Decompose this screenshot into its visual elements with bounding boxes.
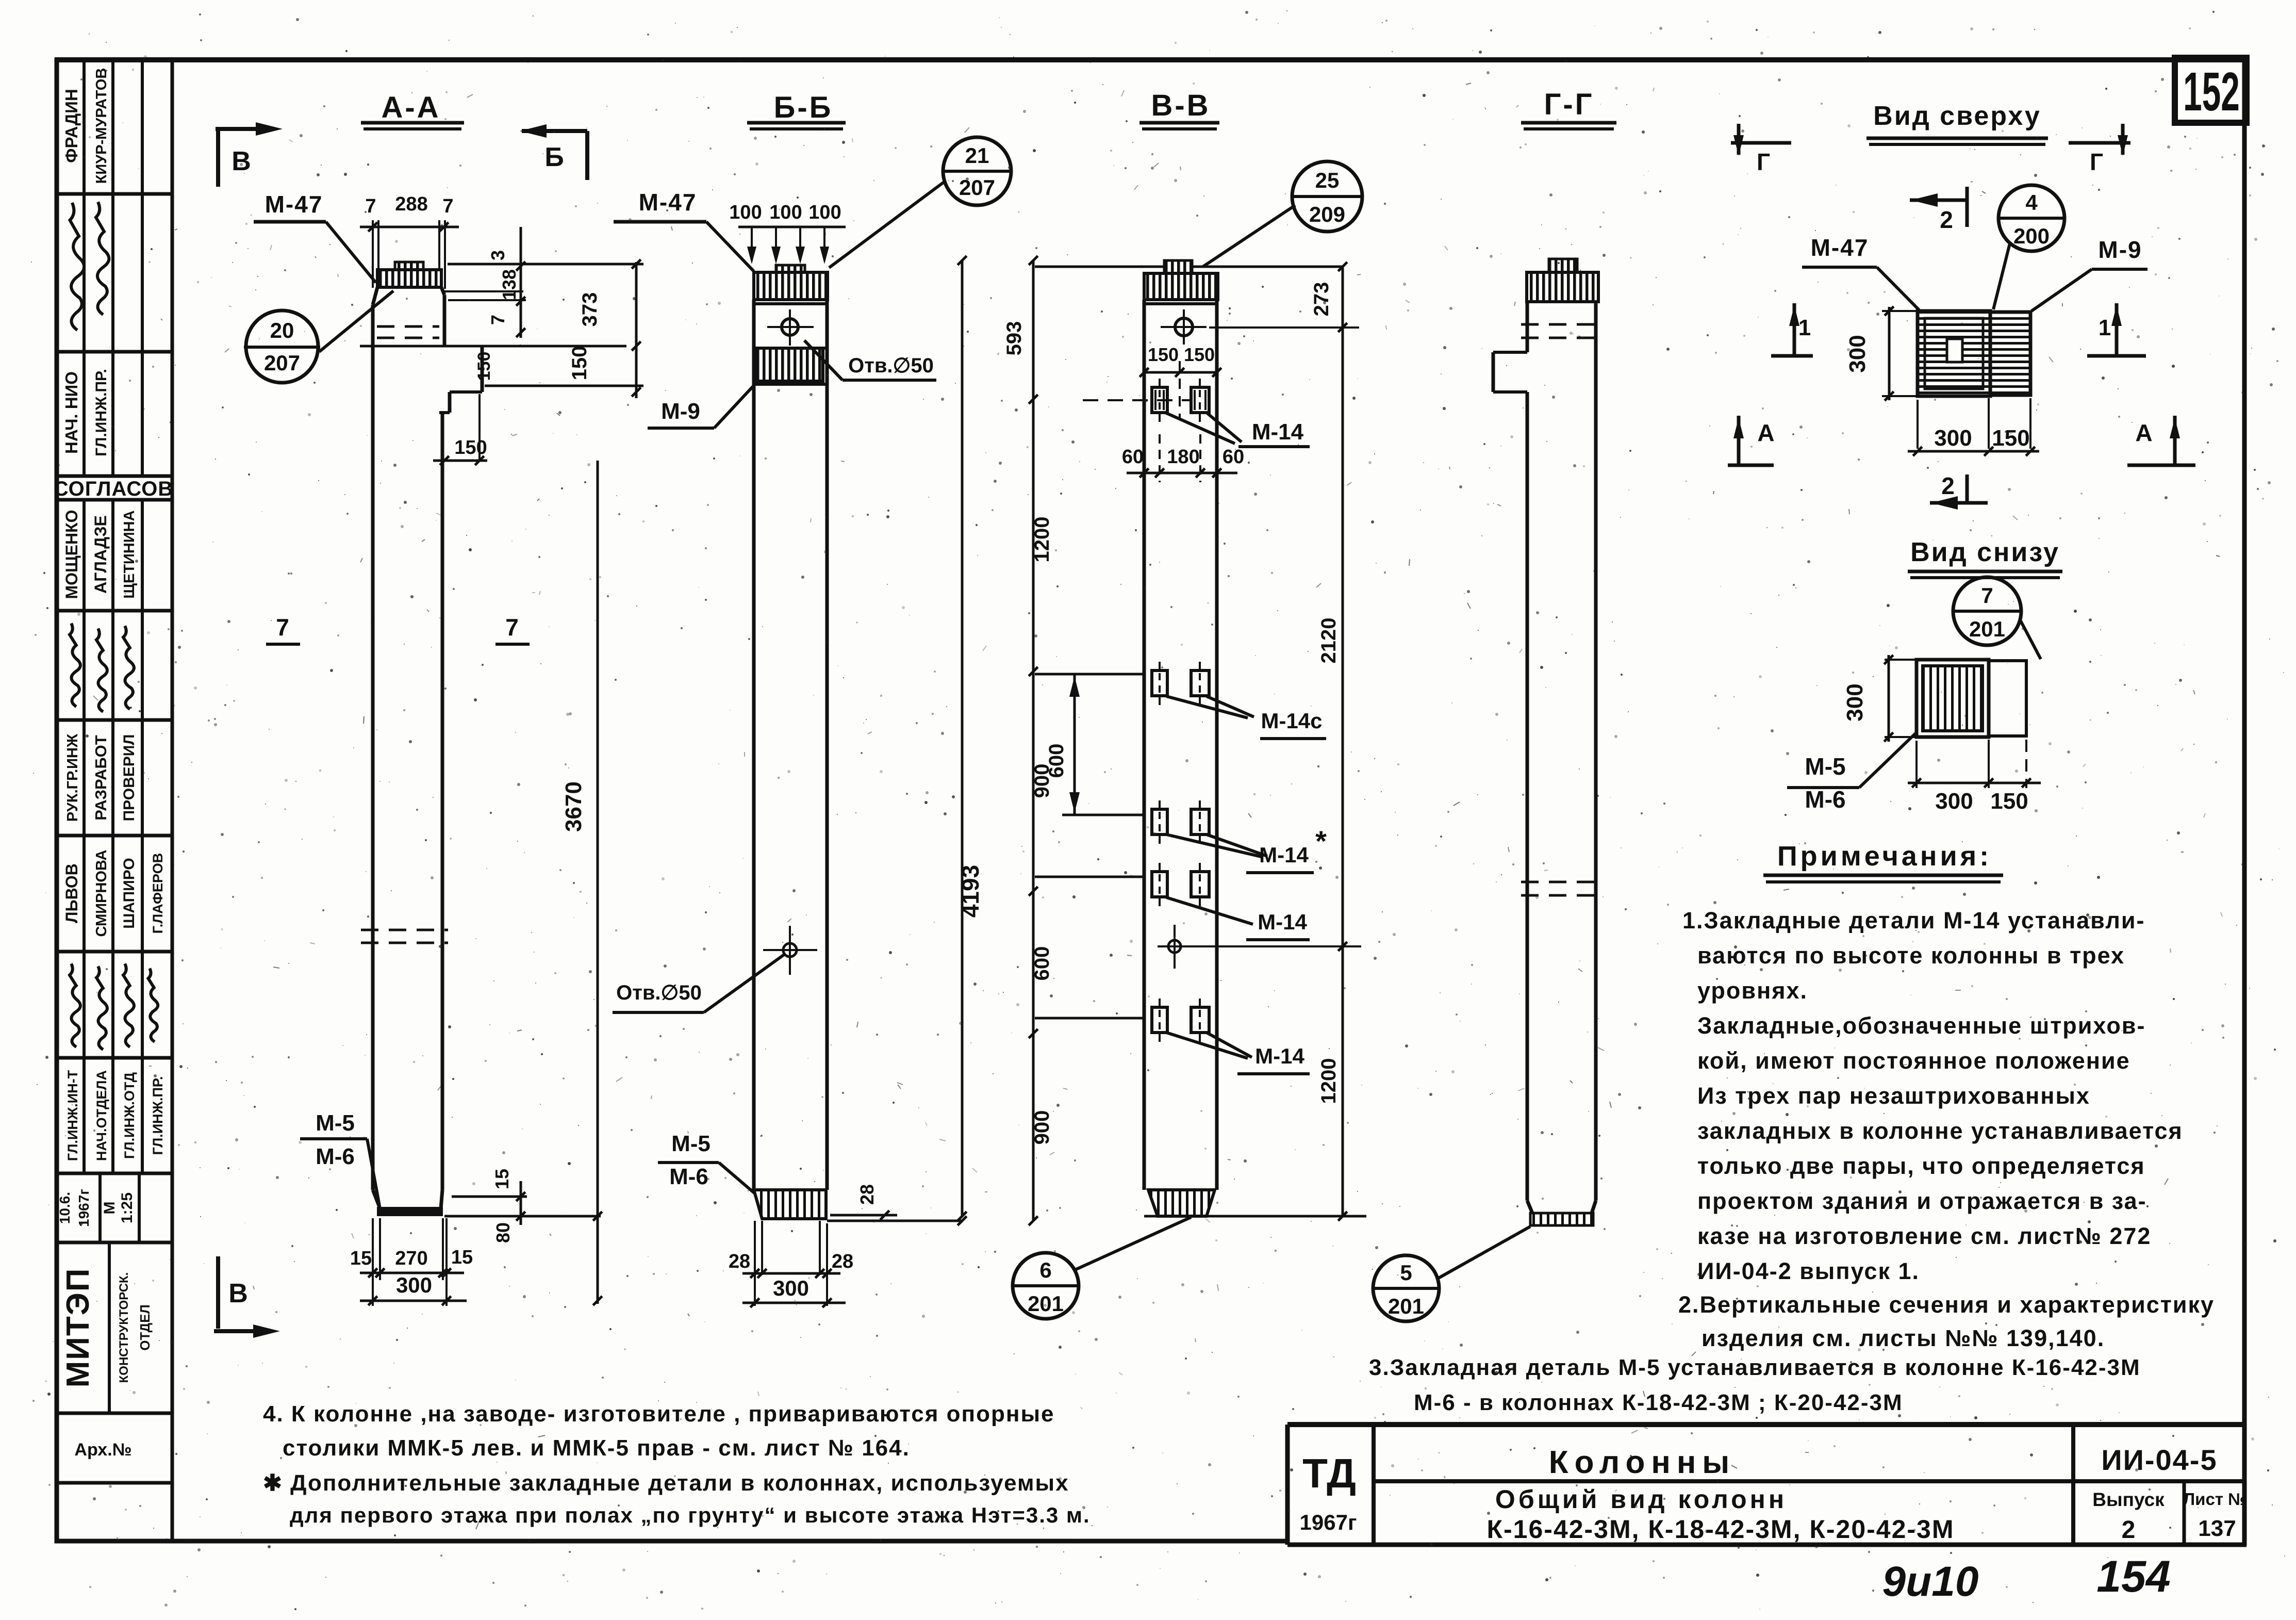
svg-text:М-14: М-14 [1258, 910, 1307, 934]
svg-text:180: 180 [1167, 446, 1199, 468]
svg-text:М-5: М-5 [1805, 753, 1845, 780]
svg-text:✱ Дополнительные закладные д: ✱ Дополнительные закладные детали в коло… [263, 1470, 1069, 1496]
svg-text:80: 80 [492, 1222, 514, 1243]
svg-text:ТД: ТД [1302, 1450, 1356, 1496]
svg-text:300: 300 [1934, 426, 1972, 451]
svg-text:уровнях.: уровнях. [1697, 977, 1808, 1004]
svg-text:только две пары, что определяе: только две пары, что определяется [1697, 1153, 2145, 1179]
svg-text:201: 201 [1388, 1294, 1424, 1318]
svg-text:ГЛ.ИНЖ.ПР.: ГЛ.ИНЖ.ПР. [93, 369, 110, 456]
svg-text:7: 7 [365, 195, 376, 217]
svg-text:5: 5 [1400, 1261, 1412, 1285]
svg-text:100: 100 [808, 202, 841, 223]
svg-text:1200: 1200 [1317, 1058, 1340, 1104]
svg-text:15: 15 [491, 1169, 513, 1189]
svg-text:Вид сверху: Вид сверху [1873, 101, 2041, 131]
svg-text:3: 3 [487, 250, 508, 260]
svg-text:300: 300 [1935, 789, 1973, 814]
svg-text:М-6: М-6 [1805, 786, 1845, 813]
svg-text:150: 150 [1184, 344, 1215, 365]
svg-text:7: 7 [442, 195, 453, 217]
svg-text:МИТЭП: МИТЭП [60, 1268, 96, 1388]
svg-text:Г: Г [2090, 149, 2103, 175]
svg-text:7: 7 [487, 315, 508, 325]
svg-text:150: 150 [474, 352, 494, 381]
svg-text:М-9: М-9 [661, 399, 700, 424]
svg-text:4193: 4193 [957, 865, 984, 918]
svg-text:М-47: М-47 [265, 191, 323, 218]
svg-text:4: 4 [2025, 190, 2038, 215]
svg-text:300: 300 [1845, 335, 1870, 372]
svg-text:КОНСТРУКТОРСК.: КОНСТРУКТОРСК. [117, 1272, 131, 1383]
svg-text:ФРАДИН: ФРАДИН [62, 89, 81, 162]
svg-text:ИИ-04-2 выпуск 1.: ИИ-04-2 выпуск 1. [1697, 1258, 1920, 1284]
svg-text:273: 273 [1310, 282, 1333, 317]
svg-text:М-14с: М-14с [1261, 709, 1322, 733]
svg-text:Вид снизу: Вид снизу [1910, 537, 2060, 567]
svg-text:300: 300 [396, 1273, 432, 1297]
svg-text:М-14: М-14 [1252, 419, 1304, 445]
svg-text:150: 150 [454, 437, 487, 459]
svg-text:казе на изготовление см. лис: казе на изготовление см. лист№ 272 [1697, 1223, 2151, 1249]
svg-text:2: 2 [1940, 206, 1953, 233]
svg-text:М: М [101, 1202, 118, 1215]
svg-text:РАЗРАБОТ: РАЗРАБОТ [92, 735, 110, 820]
svg-text:ПРОВЕРИЛ: ПРОВЕРИЛ [121, 734, 138, 822]
svg-text:3670: 3670 [561, 781, 586, 832]
svg-text:1:25: 1:25 [119, 1192, 136, 1223]
svg-text:7: 7 [276, 614, 289, 641]
svg-text:ваются по высоте колонны в тре: ваются по высоте колонны в трех [1697, 942, 2125, 969]
svg-text:М-47: М-47 [639, 189, 697, 216]
svg-text:ЛЬВОВ: ЛЬВОВ [62, 863, 81, 923]
svg-text:В: В [228, 1279, 248, 1308]
svg-text:15: 15 [451, 1247, 473, 1268]
svg-text:100: 100 [769, 202, 802, 223]
svg-text:28: 28 [832, 1251, 853, 1272]
svg-text:проектом здания и отражается: проектом здания и отражается в за- [1697, 1188, 2147, 1214]
svg-text:Г-Г: Г-Г [1544, 88, 1594, 121]
svg-text:изделия см. листы №№ 139,140: изделия см. листы №№ 139,140. [1702, 1325, 2105, 1351]
svg-text:209: 209 [1309, 202, 1345, 226]
svg-text:15: 15 [350, 1248, 372, 1269]
svg-text:ШАПИРО: ШАПИРО [121, 858, 138, 929]
svg-text:М-14: М-14 [1259, 843, 1309, 867]
svg-text:138: 138 [499, 269, 520, 300]
svg-text:207: 207 [959, 175, 995, 200]
svg-text:ИИ-04-5: ИИ-04-5 [2101, 1444, 2217, 1476]
svg-text:1967г: 1967г [1300, 1510, 1357, 1534]
svg-text:Отв.∅50: Отв.∅50 [616, 981, 702, 1004]
svg-text:25: 25 [1315, 168, 1340, 192]
svg-text:3.Закладная деталь М-5 уста: 3.Закладная деталь М-5 устанавливается в… [1369, 1355, 2141, 1380]
svg-text:9и10: 9и10 [1882, 1558, 1979, 1605]
svg-text:НАЧ. НИО: НАЧ. НИО [62, 371, 81, 454]
svg-text:В-В: В-В [1151, 89, 1210, 122]
svg-text:М-9: М-9 [2098, 236, 2142, 263]
svg-text:Б: Б [544, 142, 564, 172]
svg-text:28: 28 [729, 1251, 750, 1272]
svg-text:21: 21 [965, 143, 989, 168]
svg-text:900: 900 [1031, 1110, 1053, 1145]
svg-text:28: 28 [856, 1184, 878, 1205]
svg-text:Б-Б: Б-Б [774, 91, 833, 124]
svg-text:10.6.: 10.6. [57, 1192, 73, 1224]
svg-text:150: 150 [1992, 426, 2029, 451]
svg-text:1: 1 [2099, 315, 2111, 340]
svg-text:288: 288 [395, 193, 427, 215]
svg-text:7: 7 [505, 614, 519, 641]
svg-text:кой, имеют постоянное положе: кой, имеют постоянное положение [1697, 1048, 2130, 1074]
svg-text:Закладные,обозначенные штрихов: Закладные,обозначенные штрихов- [1697, 1012, 2145, 1039]
svg-text:593: 593 [1003, 321, 1026, 356]
svg-text:2: 2 [1941, 472, 1955, 499]
svg-text:150: 150 [568, 346, 591, 381]
svg-text:КИУР-МУРАТОВ: КИУР-МУРАТОВ [93, 68, 110, 184]
svg-text:ЩЕТИНИНА: ЩЕТИНИНА [121, 510, 138, 598]
svg-text:207: 207 [264, 351, 300, 375]
svg-text:150: 150 [1990, 789, 2028, 814]
svg-text:НАЧ.ОТДЕЛА: НАЧ.ОТДЕЛА [94, 1070, 109, 1161]
svg-text:СОГЛАСОВ: СОГЛАСОВ [54, 478, 174, 500]
svg-text:1.Закладные детали М-14 уст: 1.Закладные детали М-14 устанавли- [1682, 907, 2145, 934]
svg-text:ГЛ.ИНЖ.ОТД: ГЛ.ИНЖ.ОТД [122, 1072, 137, 1159]
svg-text:ГЛ.ИНЖ.ПР.: ГЛ.ИНЖ.ПР. [150, 1076, 166, 1155]
svg-text:Г.ЛАФЕРОВ: Г.ЛАФЕРОВ [150, 853, 166, 934]
svg-text:Из трех пар незаштрихованных: Из трех пар незаштрихованных [1697, 1083, 2090, 1109]
svg-text:7: 7 [1981, 583, 1993, 608]
svg-text:Общий вид колонн: Общий вид колонн [1495, 1485, 1787, 1514]
svg-text:М-5: М-5 [316, 1110, 355, 1136]
svg-text:закладных в колонне устанавл: закладных в колонне устанавливается [1697, 1118, 2183, 1144]
svg-text:Отв.∅50: Отв.∅50 [848, 354, 934, 377]
svg-text:1200: 1200 [1031, 517, 1053, 563]
svg-text:Примечания:: Примечания: [1777, 841, 1992, 872]
svg-text:2: 2 [2122, 1516, 2136, 1544]
svg-text:М-47: М-47 [1811, 234, 1869, 261]
svg-text:СМИРНОВА: СМИРНОВА [93, 850, 110, 937]
svg-text:М-6 - в колоннах К-18-42-3М: М-6 - в колоннах К-18-42-3М ; К-20-42-3М [1414, 1390, 1903, 1415]
svg-text:200: 200 [2013, 224, 2050, 248]
svg-text:270: 270 [395, 1248, 427, 1269]
svg-text:1967г: 1967г [76, 1189, 92, 1227]
svg-text:*: * [1315, 825, 1327, 857]
svg-text:Выпуск: Выпуск [2092, 1489, 2165, 1510]
svg-text:ОТДЕЛ: ОТДЕЛ [137, 1304, 153, 1351]
svg-text:М-6: М-6 [316, 1144, 355, 1169]
svg-text:Колонны: Колонны [1549, 1445, 1736, 1480]
svg-text:373: 373 [579, 292, 601, 327]
svg-text:М-14: М-14 [1255, 1044, 1304, 1068]
svg-text:600: 600 [1045, 744, 1068, 778]
svg-text:К-16-42-3М, К-18-42-3М, К-20: К-16-42-3М, К-18-42-3М, К-20-42-3М [1486, 1515, 1954, 1544]
svg-text:А: А [1757, 419, 1774, 446]
svg-text:ГЛ.ИНЖ.ИН-Т: ГЛ.ИНЖ.ИН-Т [65, 1070, 80, 1161]
svg-text:154: 154 [2096, 1552, 2171, 1601]
svg-text:АГЛАДЗЕ: АГЛАДЗЕ [91, 515, 110, 594]
svg-text:6: 6 [1039, 1258, 1051, 1282]
svg-text:600: 600 [1031, 946, 1053, 981]
svg-text:для первого этажа при полах: для первого этажа при полах „по грунту“ … [290, 1503, 1091, 1527]
svg-text:150: 150 [1148, 344, 1179, 365]
svg-text:А: А [2135, 419, 2152, 446]
svg-text:Лист №: Лист № [2183, 1490, 2247, 1509]
svg-text:201: 201 [1028, 1291, 1064, 1316]
svg-text:300: 300 [1842, 683, 1868, 721]
svg-text:столики ММК-5 лев. и ММК-5 пр: столики ММК-5 лев. и ММК-5 прав - см. ли… [283, 1435, 910, 1461]
svg-text:2.Вертикальные сечения и хар: 2.Вертикальные сечения и характеристику [1678, 1291, 2215, 1318]
svg-text:Г: Г [1757, 149, 1770, 175]
svg-text:1: 1 [1798, 315, 1811, 340]
svg-text:137: 137 [2198, 1516, 2236, 1541]
svg-text:А-А: А-А [381, 91, 440, 124]
svg-text:60: 60 [1122, 446, 1144, 468]
svg-text:2120: 2120 [1317, 618, 1340, 664]
svg-text:РУК.ГР.ИНЖ: РУК.ГР.ИНЖ [64, 733, 81, 822]
svg-text:201: 201 [1969, 617, 2005, 641]
svg-text:60: 60 [1223, 446, 1244, 468]
svg-text:4. К колонне ,на заводе- изго: 4. К колонне ,на заводе- изготовителе , … [263, 1401, 1055, 1427]
svg-text:Арх.№: Арх.№ [74, 1440, 131, 1460]
svg-text:М-6: М-6 [669, 1164, 708, 1189]
svg-text:М-5: М-5 [671, 1131, 711, 1156]
svg-text:В: В [232, 146, 251, 176]
svg-text:20: 20 [270, 318, 294, 342]
svg-text:МОЩЕНКО: МОЩЕНКО [62, 510, 81, 599]
svg-text:100: 100 [729, 202, 762, 223]
svg-text:300: 300 [773, 1276, 809, 1300]
svg-text:152: 152 [2183, 61, 2240, 122]
